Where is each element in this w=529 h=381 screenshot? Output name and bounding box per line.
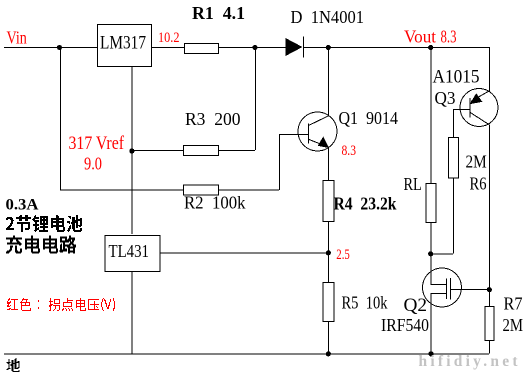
svg-text:9.0: 9.0 (84, 154, 102, 174)
svg-text:10.2: 10.2 (158, 30, 180, 46)
svg-text:A1015: A1015 (433, 67, 480, 88)
svg-text:R7: R7 (504, 294, 523, 314)
svg-text:IRF540: IRF540 (381, 315, 429, 335)
svg-text:Q3: Q3 (435, 88, 456, 108)
svg-text:R5 10k: R5 10k (342, 293, 388, 313)
svg-text:Vout: Vout (404, 27, 436, 47)
svg-text:317 Vref: 317 Vref (69, 134, 125, 154)
svg-text:R4 23.2k: R4 23.2k (334, 194, 397, 214)
svg-text:TL431: TL431 (109, 241, 150, 261)
svg-text:Q1 9014: Q1 9014 (339, 108, 399, 128)
svg-text:Q2: Q2 (404, 295, 428, 316)
svg-text:R3 200: R3 200 (185, 109, 241, 129)
svg-text:2.5: 2.5 (336, 247, 350, 263)
svg-text:8.3: 8.3 (342, 143, 357, 159)
svg-text:2M: 2M (466, 152, 487, 172)
svg-text:D 1N4001: D 1N4001 (291, 7, 365, 27)
svg-text:LM317: LM317 (100, 34, 146, 54)
svg-text:0.3A: 0.3A (6, 197, 39, 214)
svg-text:hifidiy.net: hifidiy.net (419, 353, 519, 370)
svg-text:R1 4.1: R1 4.1 (192, 3, 245, 23)
svg-text:Vin: Vin (7, 28, 27, 48)
svg-text:8.3: 8.3 (441, 27, 457, 47)
svg-text:RL: RL (404, 174, 422, 194)
svg-text:R6: R6 (470, 174, 487, 194)
svg-text:2M: 2M (503, 315, 524, 335)
svg-text:R2 100k: R2 100k (184, 193, 246, 213)
